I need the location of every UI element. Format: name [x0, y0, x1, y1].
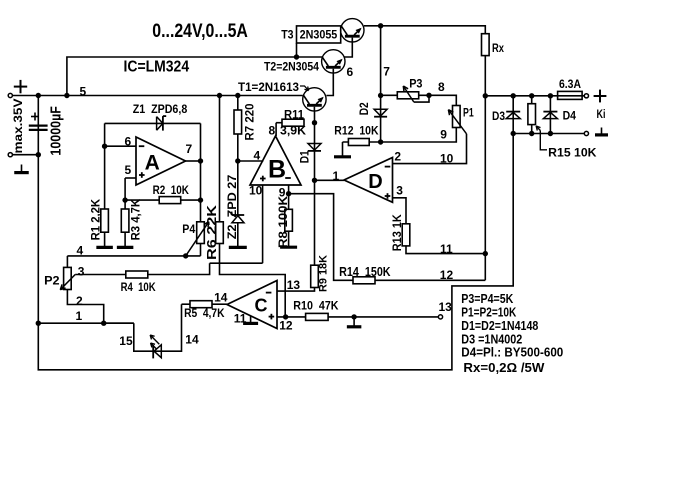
- svg-text:R4 10K: R4 10K: [121, 282, 157, 294]
- svg-text:R12 10K: R12 10K: [334, 126, 379, 138]
- ground R1: [96, 246, 113, 249]
- node LM324 riser: [64, 93, 69, 98]
- R15 wiper arrow: [536, 126, 540, 131]
- svg-text:12: 12: [279, 318, 293, 332]
- fuse 6.3A: [558, 91, 583, 99]
- svg-text:A: A: [145, 152, 160, 175]
- diode D4: [543, 111, 557, 113]
- svg-text:B: B: [268, 155, 286, 183]
- svg-text:R15 10K: R15 10K: [548, 146, 597, 160]
- ground R12: [334, 155, 351, 158]
- wire pin5 of op-amp A: [125, 177, 136, 179]
- top rail from T3 emitter to Rx: [364, 26, 485, 34]
- svg-text:6.3A: 6.3A: [559, 77, 581, 91]
- resistor R5 4,7K: [190, 301, 212, 308]
- node 12 C plus: [283, 314, 288, 319]
- node D3 top: [511, 93, 516, 98]
- svg-text:R1 2,2K: R1 2,2K: [91, 198, 103, 240]
- svg-text:7: 7: [383, 65, 390, 79]
- svg-text:3,9K: 3,9K: [280, 126, 307, 138]
- wire op-amp C pin11 ground: [250, 316, 252, 323]
- zener Z2 ZPD27: [232, 214, 245, 216]
- wire node 3 step to C pin12 riser: [220, 263, 286, 317]
- wire R12 ground lead: [342, 142, 344, 156]
- ground return: D3 rail down around note box to bottom rail and left rail: [38, 96, 513, 370]
- resistor R11 3,9K: [282, 119, 304, 126]
- node 5 positive rail: [10, 95, 302, 97]
- zener Z1 ZPD6,8: [156, 117, 158, 131]
- node Z1/pin6/R1: [102, 144, 107, 149]
- node R15 top: [529, 93, 534, 98]
- svg-text:D3: D3: [492, 109, 505, 123]
- op-amp B minus input mark: [285, 177, 291, 179]
- wire node 1 line: [38, 322, 134, 324]
- svg-text:2: 2: [76, 294, 83, 308]
- wire R3 to ground: [124, 200, 126, 209]
- wire B pin9 lead: [288, 185, 290, 194]
- resistor R13 1K: [402, 224, 410, 246]
- svg-text:Rx=0,2Ω /5W: Rx=0,2Ω /5W: [463, 360, 545, 375]
- node output rail: [483, 93, 488, 98]
- op-amp D triangle: [344, 158, 393, 203]
- resistor R6 22K: [216, 222, 224, 244]
- svg-text:C: C: [255, 295, 268, 315]
- wire Rx to output node and down to feedback: [484, 56, 486, 281]
- svg-text:3: 3: [396, 184, 403, 198]
- output rail with fuse: [485, 95, 584, 97]
- terminal input minus: [8, 153, 12, 157]
- svg-text:R13 1K: R13 1K: [392, 214, 404, 252]
- svg-text:T2=2N3054: T2=2N3054: [264, 60, 319, 74]
- wire B pin10 lead: [262, 185, 264, 263]
- svg-text:D4=Pl.: BY500-600: D4=Pl.: BY500-600: [461, 345, 563, 360]
- node 7/P3/D2: [378, 93, 383, 98]
- resistor R7 220: [234, 110, 242, 134]
- node R10 ground: [351, 314, 356, 319]
- node top rail / net7: [378, 23, 383, 28]
- potentiometer P2 wiper arrow: [60, 275, 75, 290]
- svg-text:T1=2N1613: T1=2N1613: [238, 80, 299, 94]
- svg-text:2: 2: [394, 149, 401, 163]
- svg-text:10: 10: [440, 152, 454, 166]
- transistor T2 2N3054: [322, 50, 345, 73]
- op-amp A triangle: [136, 137, 186, 185]
- ground R10: [347, 325, 362, 328]
- svg-text:14: 14: [185, 332, 199, 346]
- capacitor C 10000uF plates: [29, 124, 48, 126]
- transistor T3 2N3055: [341, 19, 364, 42]
- svg-text:P2: P2: [44, 273, 60, 287]
- wire Z2 to ground: [237, 223, 239, 247]
- ground R3: [117, 246, 134, 249]
- resistor R12 10K: [348, 139, 369, 146]
- svg-text:P1: P1: [463, 105, 474, 119]
- op-amp D minus input mark: [385, 166, 391, 168]
- wire D2 branch vertical: [380, 96, 382, 143]
- svg-text:R2 10K: R2 10K: [153, 185, 190, 197]
- node 4 R7/Z2: [235, 158, 240, 163]
- wire minus terminal: [10, 154, 38, 156]
- wire net 10 from op-amp D pin2 to P1 wiper: [393, 134, 467, 164]
- svg-text:4: 4: [77, 244, 84, 258]
- svg-text:D: D: [368, 171, 382, 193]
- node 8 P3 wiper: [426, 93, 431, 98]
- output bottom rail: [513, 133, 584, 135]
- wire T1 base R11 D1 R9 chain: [314, 111, 316, 265]
- potentiometer P1 wiper arrow: [448, 110, 466, 134]
- node 1/2: [101, 321, 106, 326]
- wire P3 line node 8 to P1: [381, 95, 457, 105]
- plus symbol input: [14, 86, 27, 88]
- wire node 4 line: [67, 255, 200, 257]
- op-amp A plus input mark: [139, 174, 145, 176]
- node 4 P4 wiper: [183, 253, 188, 258]
- svg-text:14: 14: [214, 291, 228, 305]
- wire R10 ground lead: [353, 317, 355, 326]
- plus symbol output: [594, 95, 607, 97]
- ground Z2: [229, 246, 247, 249]
- svg-text:R14 150K: R14 150K: [339, 265, 391, 279]
- op-amp A minus input mark: [139, 145, 145, 147]
- svg-text:Ki: Ki: [597, 107, 606, 121]
- wire node 3 line through R4: [75, 274, 126, 276]
- node D3 bottom: [511, 131, 516, 136]
- svg-text:7: 7: [186, 142, 193, 156]
- wire Z1 feedback line: [105, 122, 201, 124]
- wire LED loop: [104, 322, 134, 324]
- wire R2 line: [125, 199, 159, 201]
- wire net 9/12 R14 line: [289, 194, 486, 281]
- wire R7 branch node 4: [237, 96, 239, 216]
- ground R8: [280, 246, 297, 249]
- svg-text:R6 22K: R6 22K: [204, 204, 219, 260]
- wire R6 bottom / B pin10 net: [219, 244, 221, 264]
- resistor R3 4,7K: [121, 209, 129, 232]
- svg-text:5: 5: [125, 163, 132, 177]
- wire node 4 to P2 top: [66, 256, 68, 268]
- potentiometer P4 body: [197, 222, 205, 244]
- svg-text:8: 8: [438, 80, 445, 94]
- svg-text:IC=LM324: IC=LM324: [124, 58, 190, 75]
- wire pin6 into op-amp A: [105, 145, 136, 147]
- svg-text:1: 1: [76, 309, 83, 323]
- svg-text:10: 10: [249, 184, 263, 198]
- op-amp D plus input mark: [385, 195, 391, 197]
- resistor R4 10K: [126, 271, 148, 278]
- potentiometer P3 wiper arrow: [403, 86, 414, 102]
- svg-text:5: 5: [80, 84, 87, 98]
- svg-text:R10 47K: R10 47K: [293, 301, 339, 313]
- svg-text:Z2 ZPD 27: Z2 ZPD 27: [225, 174, 239, 239]
- wire riser T2 base node to T3 box: [296, 43, 298, 57]
- node D2/R12/9: [378, 139, 383, 144]
- terminal output plus: [584, 94, 588, 98]
- svg-text:R7 220: R7 220: [245, 104, 257, 141]
- ground op-amp C pin11: [243, 322, 258, 325]
- minus symbol input: [21, 165, 23, 172]
- T3 label box: [297, 26, 341, 43]
- svg-text:D1: D1: [300, 150, 312, 164]
- wire P3 wiper elbow: [414, 95, 429, 102]
- wire D4 vertical: [549, 96, 551, 134]
- terminal output minus: [584, 131, 588, 135]
- svg-text:8: 8: [269, 123, 276, 137]
- transistor T1 2N1613: [303, 88, 326, 111]
- node R7 top: [235, 93, 240, 98]
- svg-text:9: 9: [440, 128, 447, 142]
- LED arrows: [150, 335, 159, 344]
- svg-text:D4: D4: [563, 109, 577, 123]
- wire R9 bottom to net 13: [277, 288, 315, 292]
- wire T2 emitter to T3 base: [344, 42, 352, 57]
- node pin5/R2/R3: [122, 197, 127, 202]
- potentiometer P4 wiper arrow: [186, 222, 209, 256]
- svg-text:11: 11: [440, 242, 453, 256]
- node cap top: [36, 93, 41, 98]
- T1 pointer arrow: [300, 86, 309, 91]
- terminal input plus: [8, 93, 12, 97]
- svg-text:Z1 ZPD6,8: Z1 ZPD6,8: [133, 104, 188, 116]
- diode D2: [374, 109, 387, 116]
- node A output: [198, 158, 203, 163]
- resistor R8 100K: [285, 209, 293, 231]
- node R15 bottom: [529, 131, 534, 136]
- node T2/T3 base: [294, 54, 299, 59]
- wire R6 vertical: [219, 96, 221, 222]
- wire R15 vertical: [531, 96, 533, 134]
- svg-text:R9 18K: R9 18K: [318, 255, 330, 292]
- svg-text:R5 4,7K: R5 4,7K: [184, 308, 225, 320]
- resistor R9 18K: [311, 265, 319, 287]
- svg-text:11: 11: [234, 312, 247, 326]
- node R6 top: [217, 93, 222, 98]
- wire pin 4 into op-amp B: [238, 160, 263, 162]
- resistor Rx: [482, 34, 490, 56]
- LED: [152, 345, 154, 358]
- potentiometer P2 body: [64, 267, 72, 289]
- wire R11 left to op-amp B output: [276, 122, 282, 124]
- wire net 12 op-amp C plus / R10 line to terminal 13: [277, 316, 306, 318]
- svg-text:D2: D2: [359, 102, 371, 115]
- diode D3: [506, 111, 520, 113]
- svg-text:1: 1: [333, 169, 340, 183]
- wire net 1 D1 to op-amp D apex: [315, 179, 345, 181]
- wire R5 to op-amp C apex: [182, 303, 191, 305]
- svg-text:R8 100K: R8 100K: [276, 196, 290, 248]
- svg-text:6: 6: [125, 135, 132, 149]
- svg-text:2N3055: 2N3055: [300, 29, 338, 41]
- svg-text:R11: R11: [284, 109, 305, 121]
- resistor R15 body: [528, 104, 536, 125]
- potentiometer P1 body: [453, 106, 461, 128]
- svg-text:15: 15: [119, 334, 133, 348]
- svg-text:3: 3: [78, 265, 85, 279]
- svg-text:Rx: Rx: [492, 41, 504, 55]
- op-amp B plus input mark: [260, 178, 266, 180]
- op-amp B triangle: [250, 136, 301, 185]
- resistor R2 10K: [159, 197, 181, 204]
- svg-text:T3: T3: [281, 28, 294, 42]
- svg-text:4: 4: [254, 149, 261, 163]
- wire node 9 line R12 D2 P1: [343, 128, 457, 143]
- svg-text:10000µF: 10000µF: [49, 106, 65, 156]
- node 1 left rail: [36, 321, 41, 326]
- wire R15 label leader: [540, 131, 547, 150]
- svg-text:13: 13: [439, 300, 453, 314]
- node R2/P4: [198, 197, 203, 202]
- wire op-amp D pin3 to R13: [393, 198, 407, 224]
- svg-text:P3: P3: [409, 77, 423, 91]
- op-amp C plus input mark: [269, 316, 275, 318]
- wire net 11 R13 to output divider: [406, 246, 485, 254]
- terminal 13: [438, 315, 442, 319]
- resistor R14 150K: [353, 277, 375, 284]
- svg-text:max.35V: max.35V: [11, 99, 25, 154]
- svg-text:P4: P4: [182, 222, 195, 236]
- op-amp C triangle: [227, 281, 277, 329]
- node cap bottom: [36, 152, 41, 157]
- node R11/T1/D1: [312, 120, 317, 125]
- svg-text:6: 6: [347, 65, 354, 79]
- capacitor polarity plus: [31, 116, 39, 118]
- svg-text:0...24V,0...5A: 0...24V,0...5A: [152, 21, 248, 42]
- minus symbol output Ki: [601, 128, 603, 134]
- wire net7 vertical: [380, 26, 382, 96]
- resistor R1 2,2K: [101, 209, 109, 232]
- node D4 top: [548, 93, 553, 98]
- wire Z1 left down to pin6 and R1: [104, 123, 106, 209]
- node D4 bottom: [548, 131, 553, 136]
- wire T1 emitter to T2 collector: [326, 73, 333, 95]
- op-amp C minus input mark: [266, 292, 272, 294]
- node 9 pin9/R8: [286, 191, 291, 196]
- wire A output riser: [186, 160, 201, 162]
- svg-text:13: 13: [287, 278, 301, 292]
- potentiometer P3 body: [397, 92, 418, 99]
- resistor R10 47K: [306, 313, 329, 320]
- svg-text:R3 4,7K: R3 4,7K: [130, 198, 142, 240]
- wire LM324 supply line to T2 base: [67, 57, 323, 96]
- wire P2 bottom node 2: [67, 290, 103, 324]
- svg-text:12: 12: [440, 268, 454, 282]
- diode D1: [308, 144, 321, 151]
- wire R8 to ground: [288, 194, 290, 210]
- node 1 D1/R9: [312, 178, 317, 183]
- wire P4 bottom to node 4 line: [200, 244, 202, 256]
- node 11 divider: [483, 251, 488, 256]
